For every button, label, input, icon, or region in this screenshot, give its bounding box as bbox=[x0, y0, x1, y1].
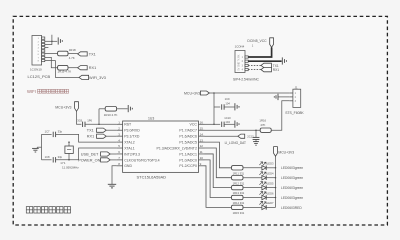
svg-text:MCU+3V3: MCU+3V3 bbox=[184, 92, 200, 96]
wire RX1 flag to pin3 bbox=[106, 135, 116, 137]
svg-text:4.7K: 4.7K bbox=[69, 56, 75, 60]
resistor R12 bbox=[232, 176, 244, 180]
connector CON4 body bbox=[235, 51, 245, 73]
junction LED bus bbox=[275, 187, 277, 189]
wire LED3 to 3V3 bus bbox=[266, 167, 275, 169]
svg-text:DCIN5_VCC: DCIN5_VCC bbox=[247, 39, 267, 43]
LED LED3 bbox=[262, 166, 266, 170]
MCU right pin numbers bbox=[200, 121, 204, 167]
svg-text:5V GND TX RX: 5V GND TX RX bbox=[239, 54, 241, 70]
svg-text:1CON4: 1CON4 bbox=[235, 44, 245, 48]
MCU right pin stubs bbox=[199, 124, 205, 166]
CON4 pin boxes bbox=[245, 56, 248, 71]
svg-text:LC12S_PCB: LC12S_PCB bbox=[28, 74, 51, 79]
wire R16 to P1.7 row bbox=[205, 129, 261, 131]
net flag RX1 to P3.1 bbox=[97, 134, 107, 138]
svg-text:11: 11 bbox=[200, 150, 203, 154]
svg-text:1Y1: 1Y1 bbox=[60, 161, 66, 165]
connector J1 body bbox=[293, 89, 301, 107]
wire C9 to ground bbox=[224, 106, 234, 108]
LED LED4 bbox=[262, 176, 266, 180]
wire C8 to XTAL1 bbox=[56, 148, 117, 160]
svg-text:SIP4-2.54mmINC: SIP4-2.54mmINC bbox=[233, 78, 259, 82]
capacitor C7 bbox=[52, 132, 54, 137]
power flag MCU+3V3 (rail) bbox=[200, 91, 209, 95]
svg-text:LED0603green: LED0603green bbox=[281, 166, 303, 170]
connector CON10 (LC12S module) body bbox=[32, 36, 42, 66]
svg-text:MCU+3V3: MCU+3V3 bbox=[55, 105, 71, 109]
wire LED anode bus bbox=[275, 156, 277, 207]
power flag DCIN5_VCC bbox=[270, 38, 274, 48]
ground (C12) bbox=[253, 141, 259, 143]
svg-text:1R10 4.7K: 1R10 4.7K bbox=[104, 113, 118, 117]
wire LED7 to 3V3 bus bbox=[266, 206, 275, 208]
junction LED bus bbox=[275, 197, 277, 199]
svg-text:P1.6/ADC6: P1.6/ADC6 bbox=[179, 135, 197, 139]
ground (C9) bbox=[234, 103, 236, 110]
wire rail to C9 branch bbox=[214, 106, 220, 108]
MCU left pin numbers bbox=[118, 121, 120, 167]
LED LED5 bbox=[262, 185, 266, 189]
svg-text:TX1: TX1 bbox=[89, 52, 96, 56]
junction rail top bbox=[213, 92, 215, 94]
wire VCC pin to rail bbox=[205, 123, 215, 125]
svg-text:LED0603RED: LED0603RED bbox=[281, 206, 302, 210]
wire J1 pin3 down to R16 bbox=[271, 101, 290, 130]
title text (CJK) wireless data transmission bbox=[26, 207, 32, 213]
svg-text:14: 14 bbox=[200, 132, 204, 136]
wire C7 to XTAL2 bbox=[56, 134, 117, 142]
wire 1R12 to LED4 bbox=[243, 177, 262, 179]
svg-text:XTAL2: XTAL2 bbox=[124, 140, 134, 144]
svg-text:1R19 4.7K: 1R19 4.7K bbox=[58, 70, 72, 74]
net flag TX1 (header) bbox=[261, 63, 271, 67]
wire loop junction to pin3 bbox=[45, 41, 52, 44]
ground (crystal) bbox=[32, 147, 39, 149]
resistor R14 bbox=[232, 195, 244, 199]
svg-text:12: 12 bbox=[200, 144, 204, 148]
svg-text:J1: J1 bbox=[295, 85, 298, 89]
wire R18 to TX1 flag bbox=[68, 53, 78, 55]
ground (sideways) at CON10 bbox=[57, 37, 59, 44]
LED LED6 bbox=[262, 195, 266, 199]
junction rail at VCC row bbox=[213, 124, 215, 126]
connector CON10 pin boxes bbox=[42, 37, 45, 62]
wire C6 to RST pin bbox=[85, 123, 117, 125]
junction LED bus bbox=[275, 167, 277, 169]
svg-text:LI_LONG_DAT: LI_LONG_DAT bbox=[225, 141, 246, 145]
wire pin2 to ground (thick) bbox=[248, 60, 281, 62]
wire TX1 flag to pin2 bbox=[106, 129, 116, 131]
svg-text:POWER_ON: POWER_ON bbox=[78, 158, 100, 162]
svg-text:15: 15 bbox=[200, 126, 204, 130]
svg-text:USB_DET: USB_DET bbox=[81, 152, 99, 156]
wire R10 to ground bbox=[117, 108, 128, 110]
J1 pin stubs bbox=[290, 93, 293, 101]
wire USB_DET flag to pin6 bbox=[110, 153, 116, 155]
ground (J1 pin2, sideways left) bbox=[277, 94, 279, 100]
wire 1R11 to LED3 bbox=[243, 167, 262, 169]
junction crystal top bbox=[68, 141, 70, 143]
svg-text:16: 16 bbox=[200, 121, 204, 125]
svg-text:P1.5/ADC5: P1.5/ADC5 bbox=[179, 140, 197, 144]
junction R16/C12 bbox=[255, 129, 257, 131]
svg-text:P1.3/ADC3/RX_LVD/INT2: P1.3/ADC3/RX_LVD/INT2 bbox=[156, 146, 196, 150]
crystal Y1 bbox=[65, 146, 73, 153]
net flag POWER_ON bbox=[101, 158, 111, 162]
junction LED bus bbox=[275, 177, 277, 179]
svg-text:11.0592MHz: 11.0592MHz bbox=[62, 166, 79, 170]
wire CON10 pin2 to ground bbox=[45, 40, 57, 42]
svg-text:P1.7/ADC7: P1.7/ADC7 bbox=[179, 129, 197, 133]
svg-text:P3.0/RXD: P3.0/RXD bbox=[124, 129, 140, 133]
svg-text:RX1: RX1 bbox=[273, 68, 279, 72]
wire into R10 bbox=[99, 108, 105, 110]
wire crystal bottom to XTAL1 net bbox=[68, 153, 70, 159]
svg-text:STC15L6A59AD: STC15L6A59AD bbox=[137, 174, 167, 179]
wire R19 to RX1 flag bbox=[68, 67, 78, 69]
svg-text:MCU+3V3: MCU+3V3 bbox=[278, 150, 294, 154]
wire LED4 to 3V3 bus bbox=[266, 177, 275, 179]
wire stub up from junction bbox=[51, 35, 53, 42]
svg-text:13: 13 bbox=[200, 138, 204, 142]
wire RST node up to R10 bbox=[98, 109, 100, 125]
wire GND pin to ground bbox=[112, 166, 117, 185]
wire bottom cap branch bbox=[42, 159, 52, 161]
MCU right pin names bbox=[156, 123, 197, 169]
wire pin3 to TX1 (dashed) bbox=[248, 64, 261, 66]
capacitor C9 bbox=[221, 104, 223, 109]
svg-text:CLKOUT0/RC/T0/P3.4: CLKOUT0/RC/T0/P3.4 bbox=[124, 158, 159, 162]
svg-text:STS_F608K: STS_F608K bbox=[285, 111, 304, 115]
net flag USB_DET bbox=[101, 152, 111, 156]
wire junction down to C12 bbox=[255, 130, 257, 137]
wire 1R13 to LED5 bbox=[243, 187, 262, 189]
wire rail vertical bbox=[213, 93, 215, 124]
LED LED7 bbox=[262, 205, 266, 209]
capacitor C8 bbox=[52, 157, 54, 162]
svg-text:1U3: 1U3 bbox=[148, 117, 154, 121]
wire rail to ground bbox=[37, 146, 41, 148]
wire crystal top to XTAL2 net bbox=[68, 142, 70, 146]
svg-text:1CON10: 1CON10 bbox=[30, 67, 42, 71]
wire crystal left rail bbox=[41, 134, 43, 159]
net flag RX1 (module) bbox=[78, 66, 88, 70]
MCU left pin stubs bbox=[117, 124, 123, 166]
svg-text:WIFI_3V3: WIFI_3V3 bbox=[89, 76, 106, 80]
capacitor C10 bbox=[221, 122, 223, 127]
wire LED6 to 3V3 bus bbox=[266, 197, 275, 199]
ground (CON4 pin2) bbox=[281, 57, 283, 64]
wire 1R14 to LED6 bbox=[243, 197, 262, 199]
connector CON10 pin numbers bbox=[38, 38, 40, 62]
svg-text:LED0603green: LED0603green bbox=[281, 186, 303, 190]
wires MCU pins 13-9 staircase to LED resistors bbox=[205, 142, 232, 207]
resistor R13 bbox=[232, 185, 244, 189]
resistor R16 bbox=[260, 128, 271, 132]
svg-text:TX1: TX1 bbox=[273, 64, 279, 68]
resistor R11 bbox=[232, 166, 244, 170]
wire J1 pin2 to ground bbox=[279, 96, 290, 98]
net flag TX1 to P3.0 bbox=[97, 128, 107, 132]
wire 1R15 to LED7 bbox=[243, 206, 262, 208]
svg-text:RX1: RX1 bbox=[89, 66, 96, 70]
resistor R18 bbox=[58, 51, 68, 56]
svg-text:1R18: 1R18 bbox=[69, 48, 76, 52]
svg-text:P1.0/ADC0: P1.0/ADC0 bbox=[179, 158, 197, 162]
wire CON10 pin4 stub bbox=[45, 47, 49, 49]
svg-text:P1.1/ADC1: P1.1/ADC1 bbox=[179, 152, 197, 156]
wire 3V3 rail to J1 pin1 bbox=[214, 92, 290, 94]
junction crystal bottom bbox=[68, 159, 70, 161]
wire CON10 pin7 to R19 bbox=[45, 57, 58, 67]
capacitor C6 (series) bbox=[82, 122, 84, 127]
svg-text:TX1: TX1 bbox=[87, 129, 94, 133]
wire LED5 to 3V3 bus bbox=[266, 187, 275, 189]
wire MCU+3V3 down to C6 bbox=[77, 111, 82, 124]
net flag RX1 (header) bbox=[261, 67, 271, 71]
wire P1.6 to LI_LONG_DAT flag bbox=[205, 135, 238, 137]
svg-text:47K: 47K bbox=[260, 123, 265, 127]
wire C10 to ground bbox=[224, 123, 234, 125]
svg-text:P1.2/CCP0: P1.2/CCP0 bbox=[179, 164, 197, 168]
svg-text:INT2/P3.3: INT2/P3.3 bbox=[124, 152, 140, 156]
svg-text:GND: GND bbox=[124, 164, 132, 168]
wire CON10 pin6 to R18 bbox=[45, 53, 58, 55]
junction on pin2 wire bbox=[51, 41, 53, 43]
resistor R19 bbox=[58, 65, 68, 70]
junction at RST node bbox=[98, 124, 100, 126]
J1 pin numbers bbox=[295, 92, 297, 103]
wire POWER_ON flag to pin7 bbox=[110, 159, 116, 161]
svg-text:LED0603green: LED0603green bbox=[281, 176, 303, 180]
svg-text:10: 10 bbox=[200, 156, 204, 160]
resistor R10 bbox=[105, 107, 116, 112]
CON4 pin numbers bbox=[242, 56, 244, 72]
wire top cap branch bbox=[42, 133, 52, 135]
svg-text:XTAL1: XTAL1 bbox=[124, 146, 134, 150]
svg-text:WIFI: WIFI bbox=[27, 89, 36, 94]
capacitor C12 (to ground) bbox=[253, 136, 260, 138]
power flag MCU+3V3 (LED bus) bbox=[274, 147, 278, 157]
wire flag to rail junction bbox=[209, 92, 214, 94]
wire VCC row to C10 bbox=[214, 123, 220, 125]
ground (sideways) after R10 bbox=[127, 105, 129, 112]
net flag LI_LONG_DAT bbox=[238, 134, 245, 138]
svg-text:RST: RST bbox=[124, 123, 132, 127]
wire DCIN5_VCC to pin1 (thick) bbox=[248, 47, 271, 57]
wire CON10 pin8 to WIFI_3V3 flag bbox=[45, 61, 79, 78]
resistor R15 bbox=[232, 205, 244, 209]
net flag TX1 (module) bbox=[78, 52, 88, 56]
ground (MCU GND) bbox=[108, 183, 116, 185]
svg-text:LED0603green: LED0603green bbox=[281, 196, 303, 200]
power flag MCU+3V3 (left) bbox=[75, 102, 79, 112]
net flag WIFI_3V3 bbox=[79, 75, 89, 79]
ground (C10) bbox=[234, 121, 236, 128]
MCU left pin names bbox=[124, 123, 159, 169]
svg-text:RX1: RX1 bbox=[87, 135, 94, 139]
svg-text:P3.1/TXD: P3.1/TXD bbox=[124, 135, 140, 139]
svg-text:1R16: 1R16 bbox=[259, 119, 266, 123]
svg-text:VCC: VCC bbox=[190, 123, 198, 127]
wire pin4 to RX1 (dashed) bbox=[248, 69, 261, 71]
MCU U3 body (STC15) bbox=[123, 121, 199, 172]
